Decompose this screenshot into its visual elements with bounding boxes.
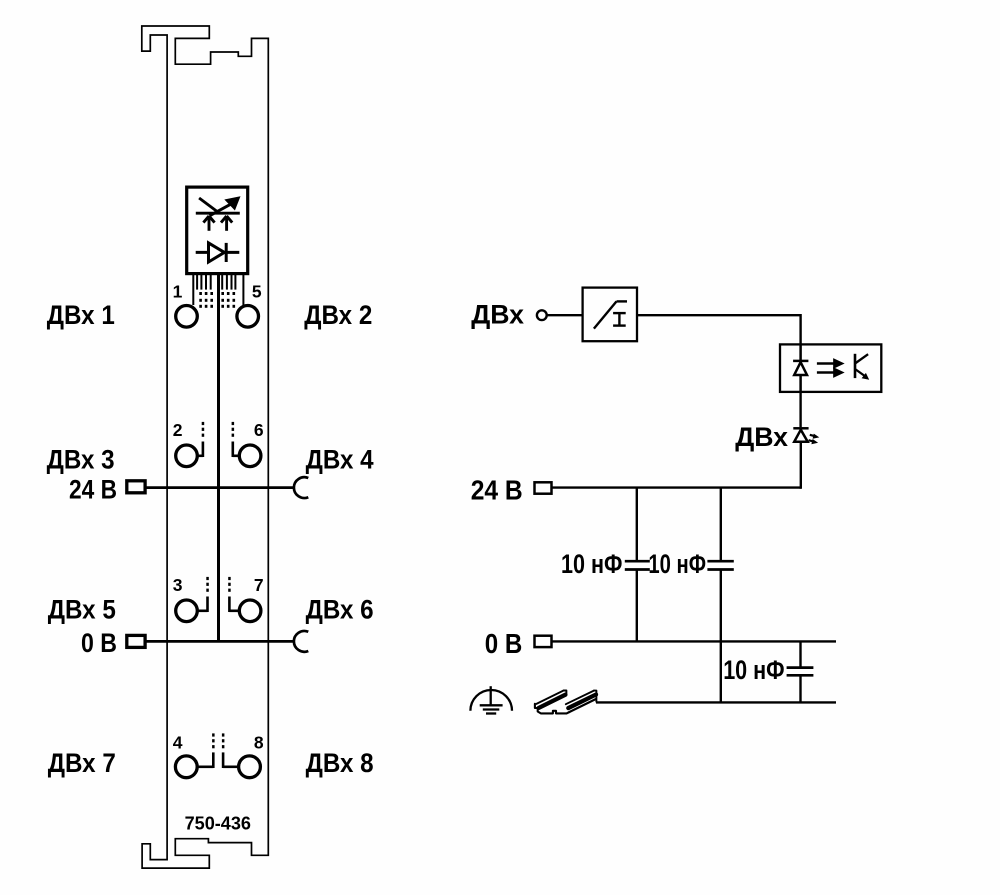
- 24V terminal: [127, 481, 145, 493]
- input terminal: [537, 310, 547, 320]
- 24V wire: [145, 486, 294, 489]
- 0V jumper contact: [294, 631, 308, 652]
- filter symbol: [594, 301, 627, 328]
- svg-text:ДВх 2: ДВх 2: [304, 300, 372, 330]
- ground rail: [596, 701, 836, 703]
- svg-text:3: 3: [173, 575, 183, 595]
- svg-text:ДВх 4: ДВх 4: [306, 445, 374, 475]
- svg-text:8: 8: [254, 733, 264, 753]
- svg-text:0 В: 0 В: [485, 628, 523, 659]
- bus dotted pins: [199, 292, 235, 308]
- svg-text:1: 1: [173, 281, 183, 301]
- contact 3: [176, 597, 208, 622]
- capacitor C2: [707, 561, 733, 569]
- svg-text:750-436: 750-436: [185, 813, 251, 833]
- 24V terminal right: [535, 482, 552, 493]
- svg-text:10 нФ: 10 нФ: [648, 549, 706, 579]
- contact 1: [176, 306, 198, 328]
- svg-text:24 В: 24 В: [69, 474, 117, 504]
- LED DVx indicator: [793, 428, 819, 444]
- phototransistor: [855, 354, 869, 380]
- contact 2: [176, 442, 203, 467]
- contact 4: [175, 752, 213, 777]
- contact 8: [223, 752, 260, 777]
- 24V jumper contact: [294, 477, 308, 498]
- svg-text:ДВх: ДВх: [471, 300, 524, 330]
- svg-text:5: 5: [252, 281, 262, 301]
- DIN rail: [535, 691, 597, 714]
- 0V rail: [552, 640, 837, 642]
- indicator block U1: [187, 187, 248, 274]
- svg-text:ДВх 8: ДВх 8: [306, 748, 374, 778]
- wire C2: [720, 488, 722, 703]
- contact 5: [237, 306, 259, 328]
- svg-text:6: 6: [254, 420, 264, 440]
- filter block: [583, 288, 637, 342]
- optocoupler LED: [793, 344, 808, 392]
- wire C3: [799, 641, 801, 702]
- 0V terminal: [127, 635, 145, 647]
- wire input to filter: [547, 314, 583, 316]
- contact 6: [233, 442, 261, 467]
- svg-text:ДВх 1: ДВх 1: [47, 300, 115, 330]
- svg-text:ДВх 7: ДВх 7: [48, 748, 116, 778]
- 24V rail: [552, 486, 801, 488]
- svg-text:10 нФ: 10 нФ: [723, 655, 784, 685]
- K-bus line: [217, 274, 220, 642]
- svg-text:ДВх 6: ДВх 6: [306, 595, 374, 625]
- svg-text:4: 4: [173, 733, 183, 753]
- svg-text:ДВх 3: ДВх 3: [47, 445, 115, 475]
- svg-text:24 В: 24 В: [471, 474, 523, 505]
- svg-text:0 В: 0 В: [81, 628, 117, 658]
- 0V terminal right: [535, 636, 552, 647]
- svg-text:10 нФ: 10 нФ: [561, 549, 622, 579]
- contact 7: [229, 597, 261, 622]
- wire filter to optocoupler: [637, 315, 801, 344]
- svg-text:7: 7: [254, 575, 264, 595]
- svg-text:ДВх 5: ДВх 5: [48, 595, 116, 625]
- earth ground: [470, 686, 512, 713]
- capacitor C3: [787, 668, 814, 676]
- LED arrows symbol: [196, 198, 240, 231]
- diode symbol: [196, 243, 240, 262]
- 0V wire: [145, 640, 294, 643]
- optocoupler arrows: [817, 360, 842, 376]
- wire LED to 24V rail: [800, 442, 802, 489]
- module outline: [142, 26, 268, 868]
- svg-text:2: 2: [173, 420, 183, 440]
- bus pins: [193, 274, 243, 305]
- capacitor C1: [625, 561, 650, 569]
- svg-text:ДВх: ДВх: [735, 422, 788, 452]
- wire C1: [636, 488, 638, 642]
- optocoupler U2: [780, 344, 881, 392]
- wire optocoupler to LED: [799, 392, 801, 427]
